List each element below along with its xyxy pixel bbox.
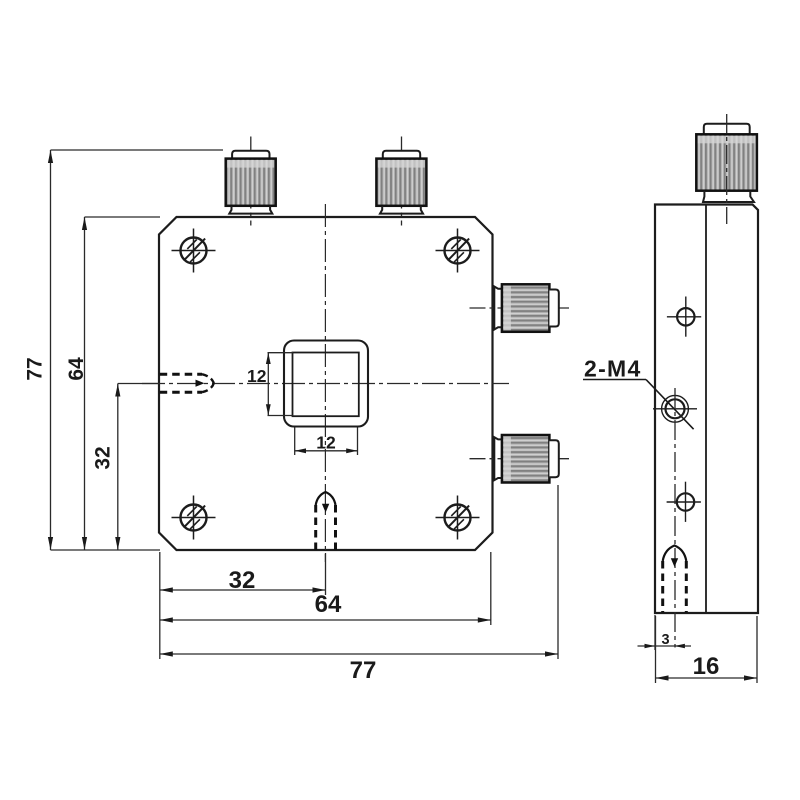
side knob cap bbox=[704, 124, 750, 135]
hidden screw side-bottom tip arrow bbox=[671, 558, 678, 567]
svg-text:64: 64 bbox=[315, 591, 342, 618]
knob top-1 cap bbox=[232, 151, 269, 159]
label 2-M4 underline bbox=[583, 379, 646, 381]
centerline vertical (front view) bbox=[324, 204, 326, 562]
knob right-1 body bbox=[502, 284, 550, 332]
svg-text:12: 12 bbox=[316, 433, 336, 453]
knob top-2 bracket bbox=[380, 206, 423, 214]
side knob body bbox=[696, 134, 757, 190]
knob top-2 centerline bbox=[401, 137, 403, 226]
hidden screw side-bottom (dashed) bbox=[663, 546, 687, 613]
side hole 1 bbox=[667, 297, 701, 337]
svg-text:32: 32 bbox=[229, 567, 256, 594]
dim 16 side: extension lines bbox=[655, 616, 657, 683]
dim 32 bottom: dimension line bbox=[160, 589, 326, 591]
knob top-1 centerline bbox=[250, 137, 252, 226]
knob right-2 centerline bbox=[470, 458, 570, 460]
svg-text:32: 32 bbox=[91, 446, 114, 469]
dim 77 left: extension line top bbox=[51, 149, 224, 151]
side knob centerline bbox=[726, 114, 728, 224]
knob right-2 bracket bbox=[494, 437, 502, 480]
side view body bbox=[655, 205, 758, 614]
knob right-1 cap bbox=[549, 290, 558, 327]
corner hole bottom-right bbox=[436, 496, 480, 540]
knob right-2 cap bbox=[549, 440, 558, 477]
dim 32 left: dimension line bbox=[117, 384, 119, 551]
hidden screw bottom tip arrow bbox=[322, 504, 329, 513]
svg-text:12: 12 bbox=[247, 366, 267, 386]
dim 77 bottom: extension line right bbox=[557, 485, 559, 659]
dim 64 left: dimension line bbox=[84, 217, 86, 550]
hidden screw left (dashed) bbox=[160, 374, 214, 392]
dim 16 side: dimension line bbox=[656, 677, 758, 679]
plate bottom edge extension left bbox=[51, 549, 161, 551]
hidden screw bottom (dashed) bbox=[316, 492, 336, 550]
label 2-M4 leader bbox=[646, 380, 694, 430]
centerline horizontal (front view) bbox=[142, 383, 509, 385]
front view plate bbox=[159, 217, 493, 550]
dim 64 left: extension line top bbox=[85, 216, 161, 218]
knob right-1 bracket bbox=[494, 287, 502, 330]
corner hole top-right bbox=[436, 229, 480, 273]
dim 3 side: extension of body left edge bbox=[654, 615, 656, 650]
knob top-2 cap bbox=[383, 151, 420, 159]
svg-text:64: 64 bbox=[65, 357, 88, 381]
dim 12 bottom (inner square width): extension lines bbox=[294, 428, 296, 456]
svg-text:2-M4: 2-M4 bbox=[584, 356, 642, 382]
dim 77 bottom: dimension line bbox=[160, 653, 558, 655]
dim 64 bottom: extension line right bbox=[490, 552, 492, 625]
svg-text:16: 16 bbox=[693, 653, 720, 680]
dim 12 left: dimension line bbox=[267, 353, 269, 416]
knob right-1 centerline bbox=[470, 307, 570, 309]
dim 12 left (inner square height): extension ticks bbox=[268, 352, 294, 354]
dim 32 left: extension line top bbox=[118, 383, 160, 385]
corner hole top-left bbox=[172, 229, 216, 273]
dim 64 bottom: dimension line bbox=[160, 619, 491, 621]
corner hole bottom-left bbox=[172, 496, 216, 540]
svg-text:77: 77 bbox=[350, 657, 377, 684]
center square inner bbox=[293, 353, 359, 417]
side knob bracket bbox=[703, 191, 754, 202]
side hole 3 bbox=[667, 482, 701, 522]
dim 77 left: dimension line bbox=[50, 150, 52, 550]
dim 32 bottom: extension lines bbox=[159, 552, 161, 659]
knob right-2 body bbox=[502, 435, 550, 483]
dim 3 side: dimension line bbox=[638, 645, 692, 647]
side centerline through M4 hole bbox=[674, 388, 676, 648]
hidden screw left tip arrow bbox=[196, 380, 205, 387]
dim 12 bottom: dimension line bbox=[295, 450, 358, 452]
svg-text:3: 3 bbox=[661, 632, 669, 648]
side view inner plate line bbox=[705, 205, 707, 614]
knob top-2 body bbox=[376, 159, 426, 206]
center square outer bbox=[284, 341, 368, 427]
knob top-1 body bbox=[226, 159, 276, 206]
knob top-1 bracket bbox=[229, 206, 272, 214]
side hole 2 (M4 threaded) bbox=[653, 395, 697, 422]
svg-text:77: 77 bbox=[23, 357, 46, 380]
